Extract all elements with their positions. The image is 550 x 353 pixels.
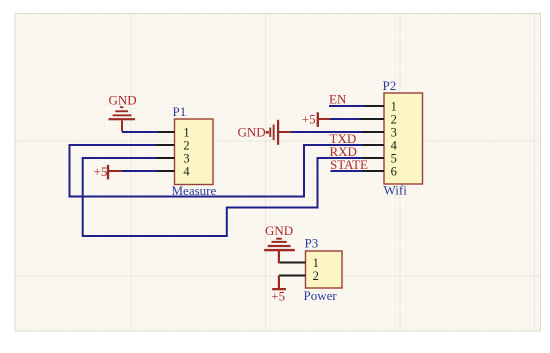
svg-text:2: 2 [391,112,397,126]
svg-text:STATE: STATE [330,157,368,172]
svg-text:Wifi: Wifi [384,183,408,198]
P1 pin 4 [156,170,175,172]
svg-text:1: 1 [313,256,319,270]
P2 pin 1 [364,105,384,107]
svg-text:GND: GND [238,125,266,140]
P2 pin 6 [360,170,384,172]
wire +5 to P1 pin 4 [122,170,158,172]
power port +5 at P1 [107,165,123,180]
P1 pin 3 [156,157,175,159]
P2 pin 5 [362,157,384,159]
svg-text:P3: P3 [305,236,319,251]
svg-text:+5: +5 [271,289,285,304]
wire +5 to P2 pin 2 [330,118,360,120]
svg-text:1: 1 [183,125,189,139]
ground symbol GND at P2 (rotated, pointing left) [266,120,292,145]
connector P2 body [384,93,423,184]
svg-text:1: 1 [391,99,397,113]
svg-text:2: 2 [183,138,189,152]
svg-text:4: 4 [183,164,190,178]
svg-text:EN: EN [329,92,347,107]
power port +5 at P3 [272,276,286,291]
P2 pin 3 [360,131,384,133]
P1 pin 1 [156,131,175,133]
wire net STATE to P2 pin 6 [331,170,363,172]
svg-text:Power: Power [304,288,338,303]
svg-text:GND: GND [265,223,293,238]
ground symbol GND at P1 [109,106,136,131]
svg-text:2: 2 [313,269,319,283]
wire net RXD: P1 pin 3 to P2 pin 5 [83,158,364,236]
svg-text:GND: GND [109,93,137,108]
connector P1 body [175,119,214,185]
wire net TXD: P1 pin 2 to P2 pin 4 [70,145,365,197]
wire GND to P2 pin 3 [291,131,362,133]
svg-text:+5: +5 [302,112,316,127]
P3 pin 1 [279,262,306,264]
svg-text:P1: P1 [173,104,187,119]
P1 pin 2 [156,144,175,146]
P2 pin 2 [358,118,384,120]
svg-text:6: 6 [391,164,397,178]
ground symbol GND at P3 [264,238,295,264]
svg-text:+5: +5 [94,164,108,179]
svg-text:4: 4 [391,138,398,152]
P2 pin 4 [362,144,384,146]
svg-text:3: 3 [183,151,189,165]
connector P3 body [306,251,343,288]
svg-text:5: 5 [391,151,397,165]
wire GND to P1 pin 1 [122,131,158,133]
power port +5 at P2 [317,112,331,127]
svg-text:3: 3 [391,125,397,139]
wire net EN to P2 pin 1 [329,105,365,107]
P3 pin 2 [279,275,306,277]
svg-text:P2: P2 [383,78,397,93]
